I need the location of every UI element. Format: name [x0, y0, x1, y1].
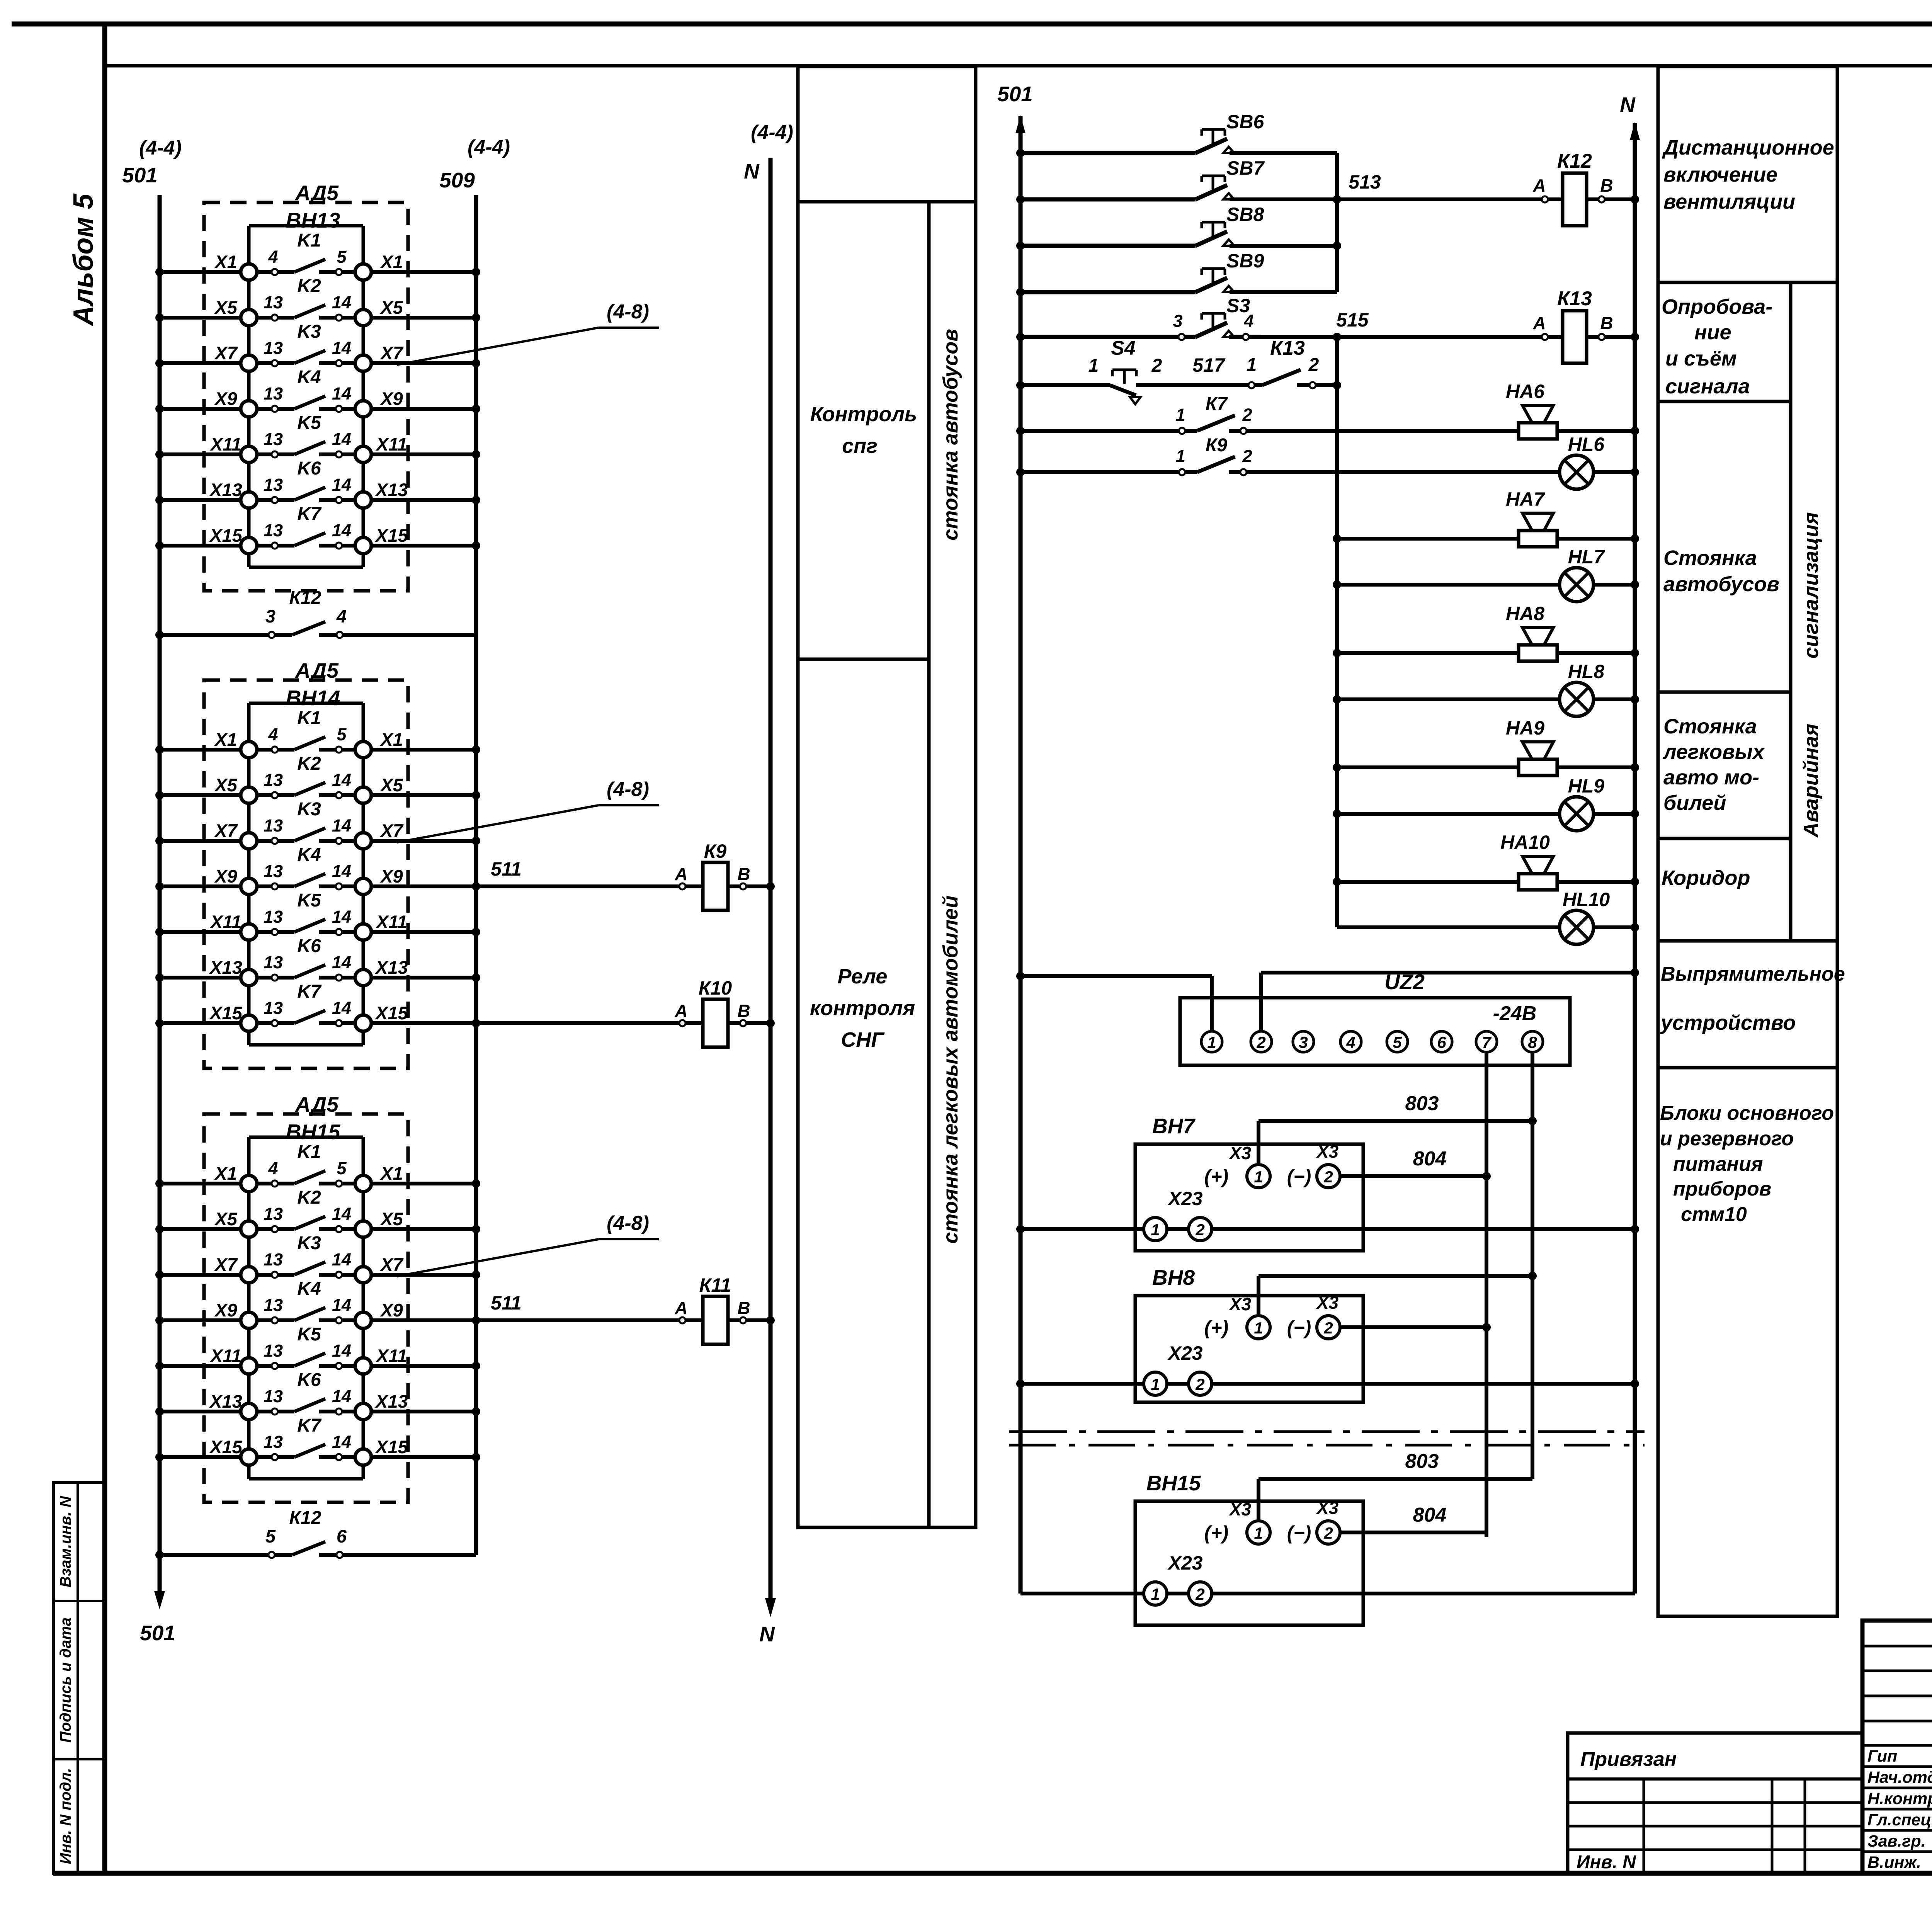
ВН14 row X7 contact K3 [155, 799, 480, 849]
svg-text:13: 13 [264, 770, 283, 790]
wire HL6 to N bus [1594, 470, 1635, 474]
wire HL7 to N bus [1594, 583, 1635, 587]
svg-text:5: 5 [337, 724, 347, 744]
wire UZ2 pin1 to 501 bus [1020, 974, 1212, 978]
ВН14 inner box right rail [362, 703, 365, 1045]
privyazan column 3 [1804, 1779, 1806, 1873]
ВН14 row X9 contact K4 [155, 845, 480, 895]
svg-text:13: 13 [264, 1250, 283, 1269]
svg-text:X11: X11 [375, 1345, 407, 1366]
UZ2 terminal 2 [1251, 1031, 1272, 1052]
kontrol box divider top [798, 200, 976, 204]
privyazan column 2 [1771, 1779, 1774, 1873]
svg-text:501: 501 [122, 163, 158, 187]
svg-text:13: 13 [264, 861, 283, 881]
ВН15 row X7 contact K3 [155, 1233, 480, 1283]
svg-text:X9: X9 [214, 1300, 237, 1320]
svg-text:вентиляции: вентиляции [1663, 190, 1795, 213]
svg-text:Х23: Х23 [1167, 1342, 1203, 1364]
switch S4 with wire 517 [1016, 337, 1249, 404]
label column divider 3 [1658, 690, 1791, 694]
svg-text:3: 3 [1173, 311, 1182, 331]
svg-text:К9: К9 [1206, 435, 1228, 456]
lamp HL7 [1560, 546, 1605, 602]
title block outline [1862, 1621, 1932, 1873]
svg-text:-24В: -24В [1493, 1002, 1537, 1025]
connector block AD5 (ВН13) dashed outline [204, 202, 408, 591]
label column outline [1658, 66, 1837, 1616]
svg-text:14: 14 [332, 1432, 351, 1452]
ВН8 X23 terminal 2 [1189, 1372, 1212, 1395]
svg-text:Х3: Х3 [1228, 1294, 1252, 1314]
svg-text:ВН14: ВН14 [286, 686, 340, 710]
svg-text:X9: X9 [214, 866, 237, 886]
svg-text:X13: X13 [209, 957, 242, 978]
svg-text:HA10: HA10 [1500, 832, 1550, 853]
svg-text:ВН15: ВН15 [1146, 1471, 1201, 1495]
svg-text:Коридор: Коридор [1662, 866, 1750, 889]
svg-text:13: 13 [264, 907, 283, 927]
label column divider 5 [1658, 939, 1837, 943]
svg-text:13: 13 [264, 338, 283, 358]
svg-text:HL8: HL8 [1568, 661, 1605, 682]
svg-text:(4-4): (4-4) [139, 137, 182, 159]
svg-text:X1: X1 [379, 1163, 403, 1184]
svg-text:ВН15: ВН15 [286, 1120, 341, 1144]
svg-text:Х23: Х23 [1167, 1552, 1203, 1574]
relay coil K11 [472, 1274, 775, 1344]
svg-text:сигнализация: сигнализация [1799, 512, 1823, 659]
wire collector to HA10 [1337, 880, 1519, 884]
svg-text:2: 2 [1256, 1033, 1265, 1051]
svg-text:K2: K2 [297, 276, 321, 296]
svg-text:14: 14 [332, 520, 351, 540]
bus 501 bottom arrow [154, 1591, 165, 1609]
svg-text:К12: К12 [289, 588, 321, 608]
ВН15 X23 terminal 1 [1144, 1582, 1167, 1605]
svg-text:HA7: HA7 [1506, 488, 1545, 510]
label column divider 4 [1658, 837, 1791, 840]
svg-text:X9: X9 [214, 388, 237, 409]
ВН14 inner box left rail [247, 703, 251, 1045]
margin stamp divider 2 [53, 1758, 105, 1760]
svg-text:Аварийная: Аварийная [1799, 724, 1823, 838]
horn HA9 [1506, 717, 1557, 776]
wire ВН15 X23 mid [1167, 1592, 1189, 1595]
svg-text:В: В [1600, 313, 1613, 333]
svg-text:K6: K6 [297, 1370, 321, 1390]
svg-text:803: 803 [1405, 1450, 1439, 1473]
kontrol box divider middle [798, 658, 929, 661]
svg-text:2: 2 [1195, 1375, 1204, 1393]
wire collector to HA7 [1337, 537, 1519, 541]
svg-text:14: 14 [332, 293, 351, 312]
contact K7 (1-2) [1016, 394, 1252, 435]
wire SB9 to collector [1230, 290, 1337, 294]
svg-text:X1: X1 [214, 1163, 237, 1184]
kontrol box outline [798, 66, 976, 1527]
svg-text:А: А [674, 864, 687, 884]
UZ2 terminal 8 [1522, 1031, 1543, 1052]
svg-text:Х3: Х3 [1316, 1293, 1339, 1313]
svg-text:K2: K2 [297, 753, 321, 774]
ВН15 inner box bottom bar [249, 1477, 363, 1481]
wire ВН7 X23 right [1212, 1227, 1635, 1231]
svg-text:515: 515 [1336, 309, 1369, 331]
svg-text:N: N [744, 159, 760, 183]
svg-text:К13: К13 [1557, 287, 1592, 310]
ВН8 X23 terminal 1 [1144, 1372, 1167, 1395]
svg-text:2: 2 [1242, 405, 1252, 425]
svg-text:7: 7 [1482, 1033, 1492, 1051]
svg-text:2: 2 [1195, 1585, 1204, 1603]
svg-text:2: 2 [1323, 1319, 1333, 1337]
ВН15 X23 terminal 2 [1189, 1582, 1212, 1605]
svg-text:K1: K1 [297, 708, 321, 728]
svg-text:13: 13 [264, 1204, 283, 1224]
svg-text:K2: K2 [297, 1187, 321, 1208]
svg-text:К7: К7 [1206, 394, 1228, 414]
svg-text:X13: X13 [209, 480, 242, 500]
wire K9 to HL6 [1246, 470, 1560, 474]
svg-text:X1: X1 [214, 252, 237, 272]
label column inner vertical [1789, 282, 1793, 941]
svg-text:СНГ: СНГ [841, 1028, 885, 1051]
svg-text:ВН8: ВН8 [1152, 1265, 1195, 1289]
block ВН7 outline [1135, 1114, 1363, 1251]
ВН13 inner box bottom bar [249, 566, 363, 569]
wire HA6 to N bus [1557, 429, 1635, 433]
svg-text:2: 2 [1151, 355, 1162, 376]
svg-text:Стоянка: Стоянка [1663, 546, 1757, 570]
svg-text:803: 803 [1405, 1092, 1439, 1115]
svg-text:ВН13: ВН13 [286, 208, 340, 232]
wire ВН7 803 riser [1257, 1121, 1260, 1165]
svg-text:1: 1 [1175, 446, 1185, 466]
svg-text:14: 14 [332, 475, 351, 495]
wire UZ2 pin2 riser [1259, 973, 1263, 1031]
svg-text:(4-4): (4-4) [751, 121, 793, 144]
UZ2 terminal 4 [1340, 1031, 1361, 1052]
svg-text:стоянка легковых автомобилей: стоянка легковых автомобилей [939, 895, 962, 1243]
relay coil K13 [1532, 287, 1639, 363]
relay coil K12 [1532, 150, 1639, 226]
svg-text:автобусов: автобусов [1663, 573, 1779, 596]
contact K12 upper (3-4) [155, 588, 476, 639]
svg-text:1: 1 [1175, 405, 1185, 425]
wire HL10 to N bus [1594, 925, 1635, 929]
svg-text:Зав.гр.: Зав.гр. [1867, 1832, 1926, 1850]
svg-text:1: 1 [1151, 1221, 1160, 1239]
ВН13 inner box left rail [247, 226, 251, 567]
contact K9 (1-2) [1016, 435, 1252, 476]
svg-text:HL10: HL10 [1563, 889, 1610, 910]
svg-text:511: 511 [491, 1292, 522, 1314]
svg-text:приборов: приборов [1673, 1178, 1771, 1200]
pushbutton SB9 [1016, 250, 1264, 296]
svg-text:X7: X7 [379, 1254, 403, 1275]
ВН15 row X13 contact K6 [155, 1370, 480, 1420]
privyazan row line 2 [1568, 1801, 1862, 1804]
wire ВН8 X23 mid [1167, 1382, 1189, 1386]
privyazan column 1 [1643, 1779, 1645, 1873]
wire SB6 to collector [1230, 151, 1337, 155]
svg-text:устройство: устройство [1660, 1011, 1796, 1034]
svg-text:517: 517 [1192, 354, 1226, 376]
wire UZ2 pin7 vertical [1485, 1052, 1488, 1537]
page frame left edge [102, 24, 107, 1873]
ВН15 row X1 contact K1 [155, 1142, 480, 1192]
privyazan row line 1 [1568, 1777, 1862, 1781]
svg-text:1: 1 [1254, 1319, 1263, 1337]
svg-text:X9: X9 [379, 388, 403, 409]
svg-text:X11: X11 [209, 912, 241, 932]
ВН13 row X9 contact K4 [155, 367, 480, 417]
svg-text:HL9: HL9 [1568, 775, 1605, 797]
svg-text:В: В [737, 864, 750, 884]
svg-text:8: 8 [1528, 1033, 1537, 1051]
svg-text:804: 804 [1413, 1504, 1447, 1526]
leader line (4-8) of ВН15 [397, 1239, 599, 1276]
wire ВН15 X23 left [1020, 1592, 1144, 1595]
svg-text:HL6: HL6 [1568, 434, 1605, 455]
wire UZ2 pin8 vertical [1531, 1052, 1534, 1479]
svg-text:Х3: Х3 [1316, 1141, 1339, 1162]
svg-text:14: 14 [332, 1295, 351, 1315]
wire HA8 to N bus [1557, 651, 1635, 655]
privyazan row line 3 [1568, 1825, 1862, 1828]
ВН13 row X13 contact K6 [155, 458, 480, 508]
ВН13 inner box top bar [249, 224, 363, 228]
svg-text:K7: K7 [297, 1415, 322, 1436]
svg-text:14: 14 [332, 1204, 351, 1224]
contact K13 (1-2) [1247, 337, 1341, 389]
pushbutton SB6 [1016, 111, 1264, 157]
horn HA7 [1506, 488, 1557, 547]
svg-text:Гип: Гип [1867, 1747, 1897, 1765]
svg-text:(4-4): (4-4) [468, 136, 510, 158]
svg-text:K3: K3 [297, 1233, 321, 1253]
privyazan table outline [1568, 1733, 1862, 1873]
wire ВН7 X23 left [1020, 1227, 1144, 1231]
svg-text:(4-8): (4-8) [607, 301, 649, 323]
wire SB7 row 513 to K12 coil [1230, 197, 1542, 201]
title block staff row line 3 [1862, 1808, 1932, 1811]
vertical collector SB group [1335, 153, 1339, 292]
ВН15 inner box right rail [362, 1137, 365, 1479]
title block staff row line 1 [1862, 1765, 1932, 1768]
svg-text:и съём: и съём [1665, 347, 1737, 370]
wire ВН8 803 [1259, 1274, 1532, 1278]
svg-text:SB8: SB8 [1226, 204, 1264, 225]
leader line (4-8) of ВН14 [397, 805, 599, 842]
svg-text:K4: K4 [297, 845, 321, 865]
privyazan row line 4 [1568, 1849, 1862, 1851]
lamp HL8 [1560, 661, 1604, 716]
svg-text:X15: X15 [209, 1437, 242, 1457]
pushbutton SB7 [1016, 157, 1265, 204]
svg-text:X7: X7 [214, 1254, 238, 1275]
svg-text:X5: X5 [214, 775, 237, 795]
ВН15 inner box top bar [249, 1136, 363, 1139]
svg-text:X7: X7 [379, 820, 403, 841]
title block top-left row line 5 [1862, 1744, 1932, 1747]
wire UZ2 pin2 to N bus [1261, 971, 1635, 975]
svg-text:SB9: SB9 [1226, 250, 1264, 272]
svg-text:Опробова-: Опробова- [1662, 295, 1772, 318]
wire collector to HL10 [1337, 925, 1560, 929]
svg-text:4: 4 [268, 724, 278, 744]
wire collector to HA9 [1337, 765, 1519, 769]
svg-text:511: 511 [491, 858, 522, 880]
title block staff row line 4 [1862, 1829, 1932, 1832]
svg-text:X1: X1 [214, 729, 237, 750]
pushbutton S3 [1016, 295, 1261, 341]
svg-text:(+): (+) [1204, 1522, 1229, 1544]
svg-text:билей: билей [1663, 791, 1726, 815]
svg-text:А: А [1532, 175, 1546, 196]
UZ2 terminal 1 [1201, 1031, 1222, 1052]
svg-text:K5: K5 [297, 413, 321, 433]
svg-text:4: 4 [336, 606, 347, 626]
svg-text:14: 14 [332, 816, 351, 835]
wire HL9 to N bus [1594, 812, 1635, 816]
svg-text:Привязан: Привязан [1580, 1748, 1677, 1770]
svg-text:X1: X1 [379, 729, 403, 750]
svg-text:К11: К11 [699, 1274, 731, 1296]
svg-text:Реле: Реле [838, 965, 888, 988]
svg-text:14: 14 [332, 861, 351, 881]
wire HL8 to N bus [1594, 697, 1635, 701]
svg-text:К12: К12 [289, 1508, 321, 1528]
svg-text:14: 14 [332, 907, 351, 927]
svg-text:13: 13 [264, 293, 283, 312]
wire ВН8 X23 left [1020, 1382, 1144, 1386]
wire ВН7 804 [1340, 1174, 1486, 1178]
svg-text:К9: К9 [704, 840, 727, 862]
svg-text:А: А [1532, 313, 1546, 333]
svg-text:13: 13 [264, 384, 283, 403]
lamp HL9 [1560, 775, 1604, 831]
bus 501 middle top arrow [1015, 115, 1026, 133]
svg-text:13: 13 [264, 1341, 283, 1361]
svg-text:501: 501 [140, 1621, 175, 1645]
rectifier UZ2 box [1180, 998, 1570, 1065]
svg-text:АД5: АД5 [294, 658, 339, 682]
ВН14 inner box top bar [249, 702, 363, 705]
wire UZ2 pin1 riser [1210, 976, 1214, 1031]
ВН13 row X15 contact K7 [155, 504, 480, 554]
connector block AD5 (ВН14) dashed outline [204, 680, 408, 1068]
svg-text:13: 13 [264, 1386, 283, 1406]
UZ2 terminal 5 [1387, 1031, 1408, 1052]
svg-text:14: 14 [332, 1341, 351, 1361]
connector block AD5 (ВН15) dashed outline [204, 1114, 408, 1502]
svg-text:Инв. N подл.: Инв. N подл. [57, 1768, 74, 1864]
margin stamp divider 1 [53, 1600, 105, 1602]
svg-text:и резервного: и резервного [1660, 1128, 1794, 1150]
svg-text:X5: X5 [214, 1209, 237, 1229]
label column divider 6 [1658, 1066, 1837, 1070]
svg-text:S3: S3 [1226, 295, 1250, 316]
svg-text:X15: X15 [209, 1003, 242, 1023]
svg-text:Х3: Х3 [1228, 1143, 1252, 1163]
contact K12 lower (5-6) [155, 1508, 476, 1559]
ВН15 row X9 contact K4 [155, 1279, 480, 1328]
title block top-left row line 1 [1862, 1645, 1932, 1648]
svg-text:Х3: Х3 [1316, 1498, 1339, 1518]
svg-text:X5: X5 [379, 775, 403, 795]
header rule line [105, 64, 1932, 68]
svg-text:Нач.отд.: Нач.отд. [1867, 1768, 1932, 1787]
svg-text:3: 3 [265, 606, 276, 626]
kontrol box vertical divider [927, 202, 931, 1527]
svg-text:6: 6 [337, 1526, 347, 1546]
svg-text:1: 1 [1247, 355, 1257, 375]
svg-text:В: В [1600, 175, 1613, 196]
wire ВН8 X23 right [1212, 1382, 1635, 1386]
svg-text:13: 13 [264, 1295, 283, 1315]
wire bus 509 right [474, 195, 478, 1555]
svg-text:13: 13 [264, 429, 283, 449]
svg-text:спг: спг [842, 434, 878, 457]
break line lower [1009, 1444, 1645, 1447]
ВН7 X23 terminal 1 [1144, 1218, 1167, 1241]
svg-text:X13: X13 [374, 1391, 408, 1412]
svg-text:Альбом 5: Альбом 5 [68, 193, 99, 326]
wire bus N left-section [769, 158, 773, 1598]
svg-text:1: 1 [1254, 1524, 1263, 1542]
svg-text:14: 14 [332, 952, 351, 972]
svg-text:X11: X11 [375, 912, 407, 932]
relay coil K9 [472, 840, 775, 910]
lamp HL6 [1560, 434, 1605, 489]
svg-text:SB6: SB6 [1226, 111, 1264, 133]
svg-text:2: 2 [1308, 355, 1319, 375]
vertical collector signal rows [1335, 337, 1339, 927]
horn HA8 [1506, 603, 1557, 661]
svg-text:501: 501 [997, 82, 1033, 106]
svg-text:K1: K1 [297, 1142, 321, 1162]
label column divider 1 [1658, 281, 1837, 284]
svg-text:14: 14 [332, 770, 351, 790]
svg-text:Дистанционное: Дистанционное [1662, 136, 1834, 159]
svg-text:K7: K7 [297, 981, 322, 1002]
svg-text:X11: X11 [209, 1345, 241, 1366]
title block top-left row line 3 [1862, 1695, 1932, 1697]
wire bus N middle [1633, 123, 1637, 1594]
svg-text:1: 1 [1254, 1168, 1263, 1186]
ВН13 row X5 contact K2 [155, 276, 480, 326]
svg-text:В.инж.: В.инж. [1867, 1853, 1921, 1872]
svg-text:6: 6 [1437, 1033, 1446, 1051]
svg-text:X1: X1 [379, 252, 403, 272]
svg-text:4: 4 [1346, 1033, 1355, 1051]
wire HA9 to N bus [1557, 765, 1635, 769]
svg-text:X5: X5 [214, 297, 237, 318]
wire ВН15 X23 right [1212, 1592, 1635, 1595]
svg-text:K4: K4 [297, 367, 321, 388]
svg-text:ВН7: ВН7 [1152, 1114, 1196, 1138]
svg-text:13: 13 [264, 952, 283, 972]
ВН15 row X11 contact K5 [155, 1324, 480, 1374]
svg-text:3: 3 [1299, 1033, 1308, 1051]
svg-text:S4: S4 [1111, 337, 1136, 359]
svg-text:(−): (−) [1287, 1166, 1311, 1187]
svg-text:14: 14 [332, 384, 351, 403]
svg-text:(−): (−) [1287, 1522, 1311, 1544]
svg-text:5: 5 [337, 247, 347, 267]
